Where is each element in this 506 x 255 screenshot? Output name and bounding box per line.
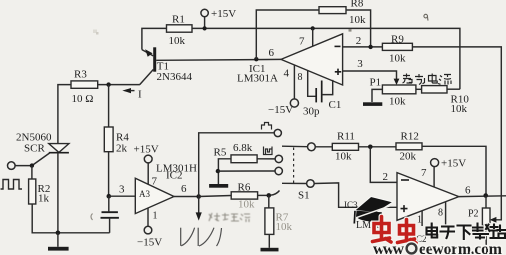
wire R3 right to T1 collector xyxy=(98,84,140,86)
wire IC1 pin7 to rail xyxy=(312,28,314,46)
ground R7 xyxy=(268,234,270,247)
svg-text:10k: 10k xyxy=(451,103,468,115)
wire junction to IC3 pin2 xyxy=(370,147,397,183)
node -15V terminal IC1 xyxy=(290,99,298,107)
svg-text:10k: 10k xyxy=(335,151,352,163)
svg-text:1: 1 xyxy=(417,215,422,226)
resistor R11 xyxy=(332,131,358,163)
icon square pulse top xyxy=(262,123,272,130)
svg-text:10k: 10k xyxy=(349,14,366,26)
svg-text:1k: 1k xyxy=(38,193,50,205)
svg-text:10k: 10k xyxy=(169,35,186,47)
svg-text:−15V: −15V xyxy=(268,104,293,116)
svg-text:www: www xyxy=(373,241,404,255)
svg-text:−15V: −15V xyxy=(137,237,162,249)
ground R5 xyxy=(209,184,228,188)
wire R4 top lead xyxy=(108,85,110,127)
ghost text 斜坡输出 xyxy=(209,213,250,222)
resistor R4 2k xyxy=(104,127,129,155)
svg-text:7: 7 xyxy=(299,36,305,48)
svg-text:R8: R8 xyxy=(351,0,364,10)
svg-text:7: 7 xyxy=(421,167,427,179)
svg-text:3: 3 xyxy=(357,58,363,70)
node input terminal xyxy=(8,162,16,170)
watermark graduation cap xyxy=(354,197,393,224)
svg-text:I: I xyxy=(138,89,142,101)
resistor R2 1k xyxy=(29,166,51,205)
wire R9 right to P2 wiper xyxy=(412,47,501,220)
stray mark q xyxy=(424,14,428,20)
svg-text:6: 6 xyxy=(465,185,471,197)
wire IC3 pin1 stub xyxy=(421,211,423,226)
svg-text:2: 2 xyxy=(383,171,389,183)
wire R2 bottom / bottom rail xyxy=(32,204,109,233)
wire IC2 pin7 to +15V xyxy=(147,163,149,184)
svg-text:3: 3 xyxy=(119,184,125,196)
svg-text:+15V: +15V xyxy=(134,144,159,156)
capacitor C integrator xyxy=(91,196,119,233)
+15V rail top xyxy=(192,28,460,89)
arrow I current xyxy=(122,88,131,93)
junction pin7 rail dot xyxy=(311,26,315,30)
svg-text:R11: R11 xyxy=(337,131,355,143)
op-amp U IC2 LM301H xyxy=(135,163,197,222)
resistor R6 xyxy=(231,182,257,211)
svg-text:A3: A3 xyxy=(139,189,150,199)
wire riser to switch row A xyxy=(199,133,275,197)
svg-text:R9: R9 xyxy=(391,33,404,45)
resistor R5 6.8k xyxy=(214,142,258,163)
ground bottom left xyxy=(57,233,59,247)
resistor R7 xyxy=(265,195,293,234)
wire IC1 pin2 xyxy=(343,46,383,48)
svg-text:20k: 20k xyxy=(400,151,417,163)
svg-text:6.8k: 6.8k xyxy=(233,142,253,154)
wire IC2 output to R6 xyxy=(199,196,232,197)
wire IC2 pin4 to -15V xyxy=(147,208,149,226)
svg-text:IC2: IC2 xyxy=(166,170,183,182)
svg-text:LM301A: LM301A xyxy=(237,73,278,85)
switch wiper squiggle xyxy=(271,191,280,196)
wire contact D to ground junction xyxy=(218,170,275,172)
resistor R8 xyxy=(319,0,366,26)
SCR 2N5060 xyxy=(16,132,69,234)
svg-text:R12: R12 xyxy=(401,131,419,143)
wire pole E to IC3 pin3 xyxy=(314,183,397,207)
svg-text:7: 7 xyxy=(152,176,158,188)
op-amp U IC3 xyxy=(344,167,471,244)
node +15V terminal xyxy=(201,9,208,16)
potentiometer P1 10k xyxy=(370,77,416,108)
watermark text 电子下载站 xyxy=(427,224,506,240)
wire R8 right down to pin2 xyxy=(346,10,371,47)
svg-text:30p: 30p xyxy=(303,106,320,118)
svg-text:P1: P1 xyxy=(370,77,382,89)
svg-text:4: 4 xyxy=(284,68,290,80)
svg-text:10k: 10k xyxy=(389,53,406,65)
wire R10 right to +15V leg xyxy=(447,88,460,90)
svg-text:eeworm.com: eeworm.com xyxy=(419,241,503,255)
svg-text:R6: R6 xyxy=(238,182,251,194)
svg-text:1: 1 xyxy=(153,211,158,222)
wire feedback up to R8 xyxy=(256,10,319,59)
svg-text:10 Ω: 10 Ω xyxy=(72,93,94,105)
svg-text:8: 8 xyxy=(438,208,443,219)
node IC1 output junction xyxy=(254,57,258,61)
wire R6 right junction xyxy=(258,194,269,196)
label 起动电流 xyxy=(403,74,452,85)
watermark red 虫 1 xyxy=(373,217,392,243)
watermark red 虫 2 xyxy=(398,220,417,244)
wire IC3 pin8 stub xyxy=(445,202,447,226)
arrow output down xyxy=(198,197,200,214)
svg-text:P2: P2 xyxy=(468,209,479,220)
square wave input icon xyxy=(1,180,23,190)
WATERMARK xyxy=(354,197,505,255)
arrow into P2 wiper xyxy=(490,217,497,223)
wire R4 bottom to IC2 input node xyxy=(108,152,110,197)
capacitor C1 30p xyxy=(303,71,341,118)
ground P1 xyxy=(363,102,382,106)
svg-text:R5: R5 xyxy=(214,147,227,159)
transistor Q T1 2N3644 xyxy=(140,47,193,84)
potentiometer P2 xyxy=(468,196,490,248)
svg-text:+15V: +15V xyxy=(441,158,466,170)
svg-text:C1: C1 xyxy=(329,99,342,111)
wire IC3 output xyxy=(459,195,506,198)
svg-text:S1: S1 xyxy=(298,190,310,202)
svg-text:R1: R1 xyxy=(172,14,185,26)
wire R12 right to IC3 output xyxy=(422,146,486,195)
wire IC1 pin3 xyxy=(343,71,397,82)
wire P1 to R10 xyxy=(416,88,422,90)
wire R11 right to junction xyxy=(359,146,397,148)
svg-text:2: 2 xyxy=(356,35,362,47)
resistor R9 xyxy=(382,33,412,64)
svg-text:10k: 10k xyxy=(238,199,255,211)
icon pulse boxed xyxy=(264,147,273,155)
resistor R12 xyxy=(396,131,422,163)
svg-text:10k: 10k xyxy=(389,96,406,108)
wire IC2 output xyxy=(174,196,199,198)
resistor R1 xyxy=(167,14,193,48)
svg-text:R3: R3 xyxy=(74,69,87,81)
svg-text:8: 8 xyxy=(298,72,303,83)
arrow into P1 wiper xyxy=(394,79,400,85)
wire R5 right to contact C xyxy=(257,158,275,160)
svg-text:6: 6 xyxy=(181,183,187,195)
resistor R10 xyxy=(422,86,470,115)
svg-text:+15V: +15V xyxy=(211,8,236,20)
svg-text:2k: 2k xyxy=(116,143,128,155)
svg-text:IC3: IC3 xyxy=(344,200,358,210)
ghost ramp waveform arcs xyxy=(181,228,222,246)
wire IC2 pin3 input xyxy=(109,195,136,197)
wire R3 left + SCR anode vertical xyxy=(58,85,71,144)
wire R1 left to T1 emitter xyxy=(142,28,167,49)
svg-text:2N3644: 2N3644 xyxy=(157,71,193,83)
wire IC3 pin7 to +15V xyxy=(433,167,435,187)
svg-text:10k: 10k xyxy=(276,221,293,233)
wire R5 left to ground xyxy=(218,159,231,184)
wire pole B to R11 xyxy=(315,146,332,148)
svg-text:SCR: SCR xyxy=(24,143,45,155)
wire P1 left to ground xyxy=(372,89,382,102)
resistor R3 10ohm xyxy=(71,69,98,106)
svg-text:6: 6 xyxy=(269,47,275,59)
wire T1 base to IC1 output xyxy=(156,58,281,61)
wire IC1 pin4 to -15V xyxy=(293,65,295,99)
op-amp U IC1 LM301A xyxy=(237,34,343,85)
stray smudge xyxy=(349,29,352,32)
switch S1 xyxy=(274,129,315,201)
